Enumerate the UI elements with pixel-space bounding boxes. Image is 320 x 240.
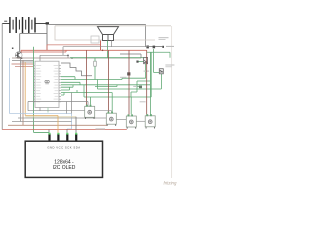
svg-text:I2C OLED: I2C OLED bbox=[53, 165, 76, 171]
svg-text:fritzing: fritzing bbox=[164, 180, 177, 185]
svg-text:GND VCC SCK SDA: GND VCC SCK SDA bbox=[47, 146, 80, 150]
